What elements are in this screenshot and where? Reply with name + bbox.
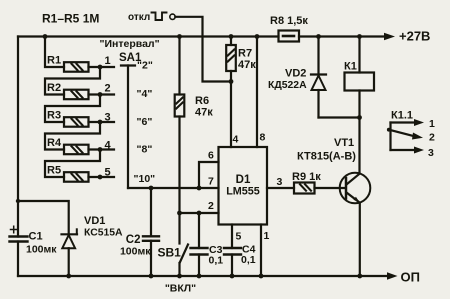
- wire R3 to R4: [45, 122, 100, 150]
- svg-text:C1: C1: [29, 231, 43, 243]
- wire pin6 branch: [199, 162, 219, 188]
- node bottom VD1: [66, 274, 71, 279]
- wire top rail left section: [18, 35, 279, 37]
- svg-text:0,1: 0,1: [241, 254, 256, 266]
- svg-text:КТ815(А-В): КТ815(А-В): [297, 151, 356, 163]
- wire pin1 to bottom rail: [260, 225, 262, 277]
- wire R1 to R2: [45, 67, 100, 95]
- zener diode VD1: [62, 235, 75, 248]
- wire to VD1 top: [18, 201, 69, 234]
- K1.1 moving blade: [389, 130, 415, 137]
- wire pin2: [180, 212, 219, 214]
- node bottom VT1 emitter: [357, 274, 362, 279]
- relay K1: [358, 37, 360, 73]
- resistor R9: [267, 187, 294, 189]
- wire left vertical upper: [17, 37, 19, 237]
- +27V arrow terminal: [384, 33, 395, 40]
- svg-text:D1: D1: [236, 174, 251, 186]
- relay contact K1.1: [389, 123, 391, 151]
- capacitor C4: [231, 225, 233, 249]
- svg-text:VD2: VD2: [285, 68, 306, 80]
- svg-text:3: 3: [104, 112, 110, 124]
- node VD2/K1 junction: [357, 115, 362, 120]
- svg-text:К1: К1: [344, 61, 357, 73]
- resistor R2: [64, 90, 89, 100]
- resistor R1: [64, 62, 89, 71]
- resistor R7: [230, 37, 232, 46]
- node pin6/pin7 junction: [197, 186, 202, 191]
- svg-text:SB1: SB1: [158, 246, 182, 260]
- svg-text:R9 1к: R9 1к: [292, 171, 321, 183]
- node rail junction K1: [357, 34, 362, 39]
- svg-text:R3: R3: [47, 110, 61, 122]
- capacitor C2: [150, 188, 152, 236]
- svg-text:ОП: ОП: [401, 270, 420, 285]
- node rail junction R7: [229, 34, 234, 39]
- resistor R4: [64, 145, 89, 155]
- node bottom pin1: [259, 274, 264, 279]
- capacitor C3: [198, 213, 200, 248]
- svg-text:"6": "6": [137, 116, 153, 128]
- wire R4 to R5: [45, 150, 100, 178]
- svg-text:47к: 47к: [195, 107, 213, 119]
- svg-text:8: 8: [260, 132, 266, 144]
- node bottom SB1: [177, 274, 182, 279]
- node R6/SB1 on pin2: [177, 211, 182, 216]
- svg-text:100мк: 100мк: [120, 246, 151, 258]
- node rail junction pin8: [255, 34, 260, 39]
- svg-text:4: 4: [233, 134, 239, 146]
- resistor R3: [64, 117, 89, 127]
- resistor R8: [279, 31, 300, 42]
- svg-text:5: 5: [236, 231, 242, 243]
- svg-text:R1–R5 1М: R1–R5 1М: [42, 12, 99, 26]
- wire pin8 to rail: [256, 37, 258, 148]
- ОП arrow terminal: [387, 272, 398, 279]
- svg-text:"ВКЛ": "ВКЛ": [165, 283, 196, 295]
- svg-text:1: 1: [264, 230, 270, 242]
- svg-text:R6: R6: [195, 95, 209, 107]
- svg-text:"4": "4": [137, 88, 153, 100]
- capacitor C1: [10, 235, 28, 237]
- node rail junction R1 feed: [43, 34, 48, 39]
- wire откл to R7 junction: [175, 17, 231, 82]
- svg-text:2: 2: [104, 83, 110, 95]
- svg-text:R2: R2: [47, 82, 61, 94]
- svg-text:VT1: VT1: [334, 137, 354, 149]
- svg-text:R5: R5: [47, 165, 61, 177]
- wire left vertical lower: [17, 242, 19, 277]
- node откл/R7/pin4 junction: [229, 79, 234, 84]
- resistor R6: [178, 37, 180, 95]
- svg-text:3: 3: [428, 147, 434, 159]
- svg-text:7: 7: [208, 176, 214, 188]
- node left/VD1 branch: [16, 199, 20, 203]
- negative pulse symbol: [152, 13, 167, 21]
- wire VD2 to K1 bottom: [319, 116, 360, 118]
- svg-text:0,1: 0,1: [209, 255, 224, 267]
- svg-text:LM555: LM555: [226, 186, 260, 198]
- svg-text:+27В: +27В: [399, 29, 430, 44]
- svg-text:R8 1,5к: R8 1,5к: [270, 15, 308, 27]
- op-amp U1 / timer D1 box: [219, 147, 268, 225]
- svg-text:откл: откл: [128, 12, 150, 23]
- svg-text:C2: C2: [126, 234, 141, 246]
- node rail junction R6: [177, 34, 182, 39]
- terminal circle откл: [170, 14, 175, 19]
- node bottom C4: [230, 274, 235, 279]
- svg-text:"8": "8": [137, 144, 153, 156]
- node bottom C3: [197, 274, 202, 279]
- node C3 on pin2: [197, 211, 202, 216]
- svg-text:2: 2: [429, 132, 435, 144]
- svg-text:R4: R4: [47, 137, 62, 149]
- svg-text:3: 3: [277, 176, 283, 188]
- node rail junction VD2: [316, 34, 321, 39]
- node C2 junction: [149, 186, 154, 191]
- wire bottom rail: [18, 275, 388, 277]
- node bottom C2: [149, 274, 154, 279]
- svg-text:5: 5: [104, 167, 110, 179]
- svg-text:R1: R1: [47, 55, 61, 67]
- wire pin7 from SA1 wiper: [128, 187, 219, 189]
- svg-text:6: 6: [208, 150, 214, 162]
- C1 plus sign: [11, 226, 18, 233]
- svg-text:К1.1: К1.1: [391, 110, 413, 122]
- svg-text:R7: R7: [238, 48, 252, 60]
- svg-text:100мк: 100мк: [26, 244, 57, 256]
- svg-text:"Интервал": "Интервал": [100, 38, 160, 50]
- diode VD2: [317, 37, 319, 75]
- svg-text:2: 2: [208, 200, 214, 212]
- svg-text:VD1: VD1: [84, 215, 105, 227]
- transistor Q1 / VT1: [340, 173, 371, 204]
- svg-text:"2": "2": [137, 60, 153, 72]
- wire top rail right section: [299, 35, 385, 37]
- svg-text:1: 1: [104, 55, 110, 67]
- resistor R5: [64, 172, 89, 182]
- svg-text:4: 4: [104, 140, 111, 152]
- svg-text:47к: 47к: [238, 59, 256, 71]
- wire VD1 to bottom rail: [68, 248, 70, 276]
- svg-text:КД522А: КД522А: [268, 80, 307, 91]
- pushbutton SB1: [178, 213, 180, 244]
- svg-text:1: 1: [429, 118, 435, 130]
- svg-text:КС515А: КС515А: [84, 228, 123, 239]
- wire feed to R1: [45, 37, 64, 68]
- switch SA1 wiper: [121, 64, 135, 66]
- svg-text:"10": "10": [134, 173, 156, 185]
- wire R2 to R3: [45, 95, 100, 123]
